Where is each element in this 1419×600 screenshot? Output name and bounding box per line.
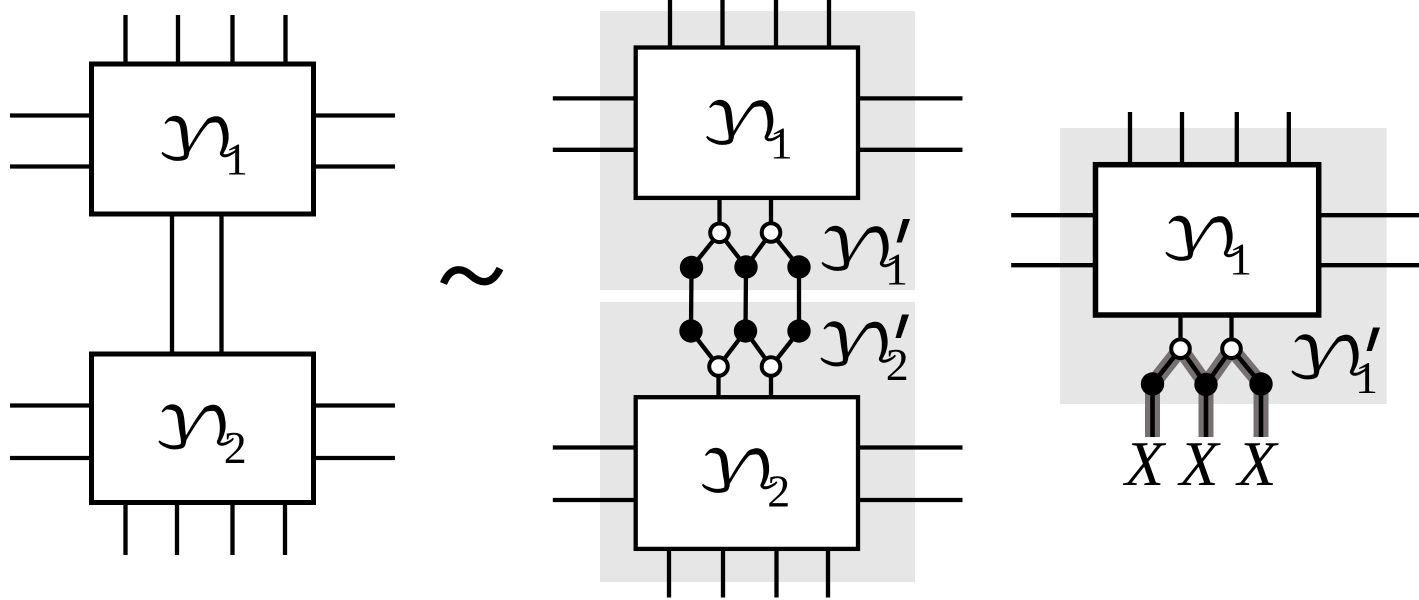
svg-text:2: 2 (767, 466, 790, 517)
svg-text:1: 1 (770, 118, 793, 169)
svg-text:X: X (1234, 428, 1279, 499)
svg-text:1: 1 (885, 244, 908, 295)
svg-text:2: 2 (224, 422, 247, 473)
svg-text:X: X (1176, 428, 1221, 499)
svg-text:1: 1 (1355, 352, 1378, 403)
svg-text:1: 1 (225, 134, 248, 185)
svg-text:1: 1 (1229, 233, 1252, 284)
svg-text:2: 2 (886, 339, 909, 390)
svg-text:X: X (1122, 428, 1167, 499)
